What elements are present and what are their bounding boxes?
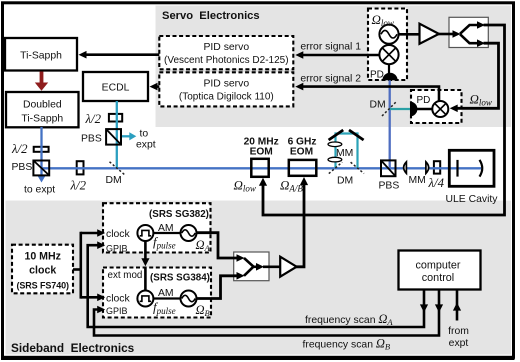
svg-text:DM: DM <box>370 100 386 111</box>
svg-text:MM: MM <box>409 175 426 186</box>
wire: AM link SG384 <box>152 297 182 299</box>
wire: servo oscillator to mixer 1 <box>388 43 390 47</box>
PBS cube (doubled Ti-Sapph) <box>33 161 49 176</box>
beam: DM reflection to PD 2 (teal-green) <box>390 108 410 110</box>
svg-text:frequency scan ΩA: frequency scan ΩA <box>305 312 393 327</box>
MM lens 1 (periscope) <box>328 142 342 147</box>
PBS cube (cavity pickoff) <box>381 160 396 176</box>
dichroic mirror DM (periscope right) <box>351 162 364 173</box>
mixer 1 (servo) <box>379 45 398 64</box>
waveplate lambda/2 (doubled Ti-Sapph) <box>34 147 49 152</box>
photodiode PD 2 <box>410 102 417 117</box>
dashed box: SRS SG382 <box>103 203 211 252</box>
dichroic mirror DM (periscope left) <box>329 162 342 173</box>
wire: mixer 1 to PD 1 <box>388 63 390 74</box>
box: RF combiner <box>234 252 269 281</box>
wire: Toptica PID to ECDL <box>150 83 160 91</box>
svg-text:(Toptica Digilock 110): (Toptica Digilock 110) <box>179 92 274 103</box>
MM lens (cavity, right) <box>426 162 429 174</box>
wire: splitter lower output to mixer 2 <box>450 43 499 112</box>
svg-text:clock: clock <box>29 265 56 277</box>
svg-text:ext mod: ext mod <box>108 270 143 281</box>
waveplate lambda/4 <box>434 161 440 173</box>
photodiode PD 1 <box>382 73 397 81</box>
pulse generator (SG384) <box>137 291 153 307</box>
wire: splitter upper output to 20 MHz EOM <box>259 25 505 215</box>
beam: main horizontal beam to cavity <box>42 167 482 169</box>
svg-text:DM: DM <box>106 175 122 186</box>
ULE Cavity box <box>449 150 494 186</box>
svg-text:PD: PD <box>370 70 384 81</box>
dashed box: PID servo Vescent <box>159 36 293 69</box>
beam: ECDL pickoff to expt (teal arrow) <box>121 132 136 140</box>
oscillator (SG382, sine) <box>181 225 197 241</box>
waveplate lambda/2 (main beam) <box>77 161 84 174</box>
wire: SG384 output to combiner <box>196 272 245 299</box>
svg-text:from: from <box>448 326 469 337</box>
svg-text:expt: expt <box>136 140 156 151</box>
svg-text:EOM: EOM <box>250 146 273 157</box>
EOM 6 GHz <box>289 160 317 176</box>
wire: SG382 output to combiner <box>196 233 245 262</box>
dichroic mirror DM (beam combiner) <box>110 162 125 175</box>
box: RF splitter <box>449 17 488 47</box>
svg-text:Doubled: Doubled <box>23 100 62 111</box>
wire: f_pulse SG382 to SG384 ext mod <box>141 241 149 291</box>
beam: doubled Ti-Sapph output (blue, down) <box>37 127 46 183</box>
svg-text:GPIB: GPIB <box>106 244 128 254</box>
wire: clock to SG384 <box>81 294 105 302</box>
svg-text:PID servo: PID servo <box>203 79 249 90</box>
svg-text:control: control <box>422 272 454 284</box>
svg-text:(SRS SG382): (SRS SG382) <box>149 209 209 220</box>
waveplate lambda/2 (ECDL) <box>109 114 122 122</box>
box: computer control <box>399 251 481 290</box>
wire: 10 MHz clock output <box>73 268 82 271</box>
svg-text:Sideband Electronics: Sideband Electronics <box>11 341 135 355</box>
EOM 20 MHz <box>251 159 268 177</box>
cavity flat mirror <box>456 160 458 177</box>
svg-text:ULE Cavity: ULE Cavity <box>446 194 499 205</box>
svg-text:Ti-Sapph: Ti-Sapph <box>21 114 63 125</box>
dashed box: PID servo Toptica <box>159 72 293 106</box>
dashed box: 10 MHz clock SRS FS740 <box>12 245 73 294</box>
svg-text:PID servo: PID servo <box>203 42 249 53</box>
grey region: Servo Electronics <box>156 6 512 128</box>
grey region: Sideband Electronics <box>6 201 512 355</box>
periscope mirror (top left) <box>329 130 344 140</box>
svg-text:error signal 2: error signal 2 <box>300 74 361 85</box>
beam: pickoff up from PBS to photodiodes (blue) <box>389 80 391 168</box>
svg-text:(SRS FS740): (SRS FS740) <box>16 281 69 291</box>
splitter Y wires <box>460 21 485 47</box>
svg-text:Servo Electronics: Servo Electronics <box>162 10 260 22</box>
wire: AM link SG382 <box>152 232 182 234</box>
svg-text:AM: AM <box>158 288 174 299</box>
wire: PD 2 to mixer 2 <box>416 108 433 110</box>
svg-text:to expt: to expt <box>24 185 55 196</box>
amplifier 2 (sideband) <box>280 257 296 277</box>
wire: servo oscillator to amplifier <box>398 33 421 36</box>
box: ECDL laser <box>83 72 148 101</box>
svg-text:to: to <box>140 129 149 140</box>
svg-text:λ/4: λ/4 <box>428 176 445 190</box>
svg-text:ECDL: ECDL <box>102 83 130 94</box>
svg-text:clock: clock <box>106 294 130 305</box>
svg-text:EOM: EOM <box>290 146 313 157</box>
svg-text:PD: PD <box>417 95 431 106</box>
svg-text:λ/2: λ/2 <box>70 179 87 193</box>
mixer 2 <box>432 101 448 117</box>
svg-text:PBS: PBS <box>12 162 33 173</box>
periscope mirror (top right) <box>349 130 364 140</box>
wire: GPIB to SG382 (frequency scan A path) <box>88 241 428 327</box>
pulse generator (SG382) <box>137 225 153 241</box>
beam: periscope path (teal up-over-down) <box>336 134 358 169</box>
svg-text:frequency scan ΩB: frequency scan ΩB <box>303 337 391 352</box>
cavity curved mirror <box>480 160 483 177</box>
combiner Y wires <box>244 258 281 276</box>
oscillator (SG384, sine) <box>181 291 197 307</box>
dashed box: SRS SG384 <box>103 268 211 318</box>
wire: clock distribution vertical <box>80 232 83 299</box>
svg-text:λ/2: λ/2 <box>11 142 28 156</box>
svg-text:PBS: PBS <box>379 181 400 192</box>
oscillator (servo, sine) <box>379 25 398 44</box>
MM lens (cavity, left) <box>404 162 407 174</box>
svg-text:GPIB: GPIB <box>106 306 128 316</box>
dichroic mirror DM (servo pickoff) <box>382 101 397 116</box>
beam: ECDL output (teal, down) <box>116 101 118 168</box>
wire: GPIB to SG384 (frequency scan B path) <box>94 289 443 336</box>
svg-text:MM: MM <box>336 148 353 159</box>
box: Ti-Sapph laser <box>5 38 77 71</box>
wire: error signal 1 <box>295 51 381 59</box>
svg-text:clock: clock <box>106 229 130 240</box>
svg-text:Ti-Sapph: Ti-Sapph <box>20 51 62 62</box>
wire: amplifier to splitter <box>438 30 461 38</box>
wire: amplifier 2 to 6 GHz EOM <box>296 177 308 267</box>
svg-text:(Vescent Photonics D2-125): (Vescent Photonics D2-125) <box>164 55 289 66</box>
wire: doubling arrow Ti-Sapph to Doubled Ti-Sapph (maroon) <box>35 72 48 91</box>
svg-text:expt: expt <box>449 338 469 349</box>
svg-text:AM: AM <box>158 223 174 234</box>
wire: from expt to computer <box>453 289 461 321</box>
svg-text:error signal 1: error signal 1 <box>300 42 361 53</box>
dashed box: servo detection 1 (osc+mixer+PD) <box>368 9 407 81</box>
svg-text:PBS: PBS <box>81 134 102 145</box>
svg-text:λ/2: λ/2 <box>85 112 102 126</box>
box: Doubled Ti-Sapph <box>6 92 79 127</box>
PBS cube (ECDL) <box>106 129 121 145</box>
svg-text:(SRS SG384): (SRS SG384) <box>150 273 210 284</box>
svg-text:computer: computer <box>415 260 460 272</box>
amplifier 1 (servo) <box>420 24 439 44</box>
wire: Vescent PID to Ti-Sapph <box>79 51 160 59</box>
MM lens 2 (periscope) <box>328 157 342 162</box>
svg-text:10 MHz: 10 MHz <box>24 251 61 263</box>
wire: clock to SG382 <box>81 229 105 237</box>
dashed box: servo detection 2 (PD+mixer) <box>411 90 462 123</box>
svg-text:DM: DM <box>337 176 353 187</box>
wire: error signal 2 <box>295 83 439 101</box>
